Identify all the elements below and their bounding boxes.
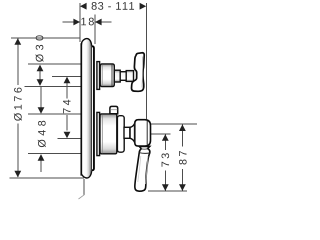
dia30 bottom ref line bbox=[25, 85, 84, 87]
plate dome front edge bbox=[91, 46, 93, 172]
arrowheads bbox=[14, 3, 185, 191]
lever collar line bbox=[139, 152, 150, 155]
lever hub cone bbox=[130, 124, 135, 143]
dim 87 shaft bbox=[181, 124, 183, 146]
label 87 bbox=[179, 151, 187, 164]
lower ring line bbox=[101, 115, 103, 153]
plate top arc bbox=[82, 39, 92, 47]
lower cartridge collar bbox=[97, 112, 100, 155]
knob joint line bbox=[134, 123, 136, 143]
upper cartridge body dia30 bbox=[100, 64, 114, 87]
arrow 74 bottom bbox=[64, 132, 71, 139]
lever collar line 2 bbox=[141, 148, 148, 150]
label 18 bbox=[81, 18, 94, 26]
dim 73 shaft bbox=[164, 134, 166, 150]
upper cartridge collar bbox=[97, 62, 100, 90]
dia30 top ref line bbox=[28, 63, 80, 65]
arrow 87 top bbox=[179, 124, 186, 131]
arrow dia176 top bbox=[14, 38, 21, 45]
dim 74 top ref line bbox=[52, 75, 81, 77]
stop tab on lower cartridge bbox=[110, 106, 118, 113]
wall stub under plate bbox=[83, 179, 85, 195]
dim 73 top extension line bbox=[151, 133, 171, 135]
lever highlight bbox=[146, 156, 148, 184]
arrow dia176 bottom bbox=[14, 171, 21, 178]
dia176 top extension line bbox=[11, 37, 80, 39]
plate dome inner edge bbox=[92, 46, 94, 170]
wall hatch ticks bbox=[79, 195, 85, 199]
dim 74 shaft bbox=[66, 80, 68, 99]
extension line plate front x=95 bbox=[94, 15, 96, 45]
wire bbox=[10, 3, 198, 195]
tab inner line bbox=[110, 109, 117, 111]
plate bottom arc bbox=[82, 170, 92, 178]
arrow dia30 bottom bbox=[37, 79, 44, 86]
dim 74 bottom ref line bbox=[58, 138, 85, 140]
bottom extension line bbox=[148, 190, 187, 192]
cross handle inner highlight bbox=[141, 57, 144, 88]
dia48 upper shaft bbox=[40, 87, 42, 110]
arrow 18 left (outside, points right) bbox=[73, 19, 80, 26]
cross handle bbox=[132, 53, 145, 92]
dia176 dim line bbox=[17, 39, 19, 85]
lower neck bbox=[124, 127, 130, 138]
arrow dia48 top (outside, points down) bbox=[38, 107, 45, 114]
arrow 83-111 right bbox=[140, 3, 147, 10]
upper neck 2 bbox=[120, 72, 126, 81]
arrow dia48 bottom (outside, points up) bbox=[38, 154, 45, 161]
extension line knob face x=146.2 bbox=[145, 3, 147, 119]
dia48 bottom ref line bbox=[28, 153, 80, 155]
arrow dia30 top bbox=[37, 65, 44, 72]
arrow 74 top bbox=[64, 77, 71, 84]
label dia48 bbox=[38, 121, 46, 147]
plate left edge bbox=[80, 43, 82, 175]
lower end cap bbox=[117, 116, 124, 153]
arrow 73 top bbox=[162, 134, 169, 141]
dim 87 top extension line bbox=[151, 123, 197, 125]
knob face line bbox=[146, 121, 148, 145]
cross handle boss bbox=[126, 71, 133, 82]
lower cartridge body dia48 bbox=[100, 114, 117, 154]
arrow 87 bottom bbox=[179, 184, 186, 191]
upper neck 1 bbox=[114, 70, 120, 82]
arrow 73 bottom bbox=[162, 184, 169, 191]
label dia176 bbox=[14, 88, 22, 121]
upper cartridge cap line bbox=[111, 65, 113, 86]
label 74 bbox=[63, 100, 70, 114]
arrow 18 right (outside, points left) bbox=[95, 19, 102, 26]
extension line wall plane x=80 bbox=[79, 3, 81, 42]
label dia30 bbox=[36, 35, 44, 62]
dia176 bottom extension line bbox=[10, 177, 85, 179]
dia30 dim shaft bbox=[39, 68, 41, 82]
label 73 bbox=[161, 153, 169, 166]
label 83-111 bbox=[92, 2, 135, 10]
dia48 lower shaft bbox=[40, 159, 42, 173]
dim line 18 tails bbox=[63, 21, 81, 23]
dia48 top ref line bbox=[28, 113, 80, 115]
lever grip bbox=[135, 146, 150, 191]
lever hub knob bbox=[135, 120, 151, 146]
arrow 83-111 left bbox=[80, 3, 87, 10]
escutcheon plate side profile bbox=[81, 39, 91, 178]
